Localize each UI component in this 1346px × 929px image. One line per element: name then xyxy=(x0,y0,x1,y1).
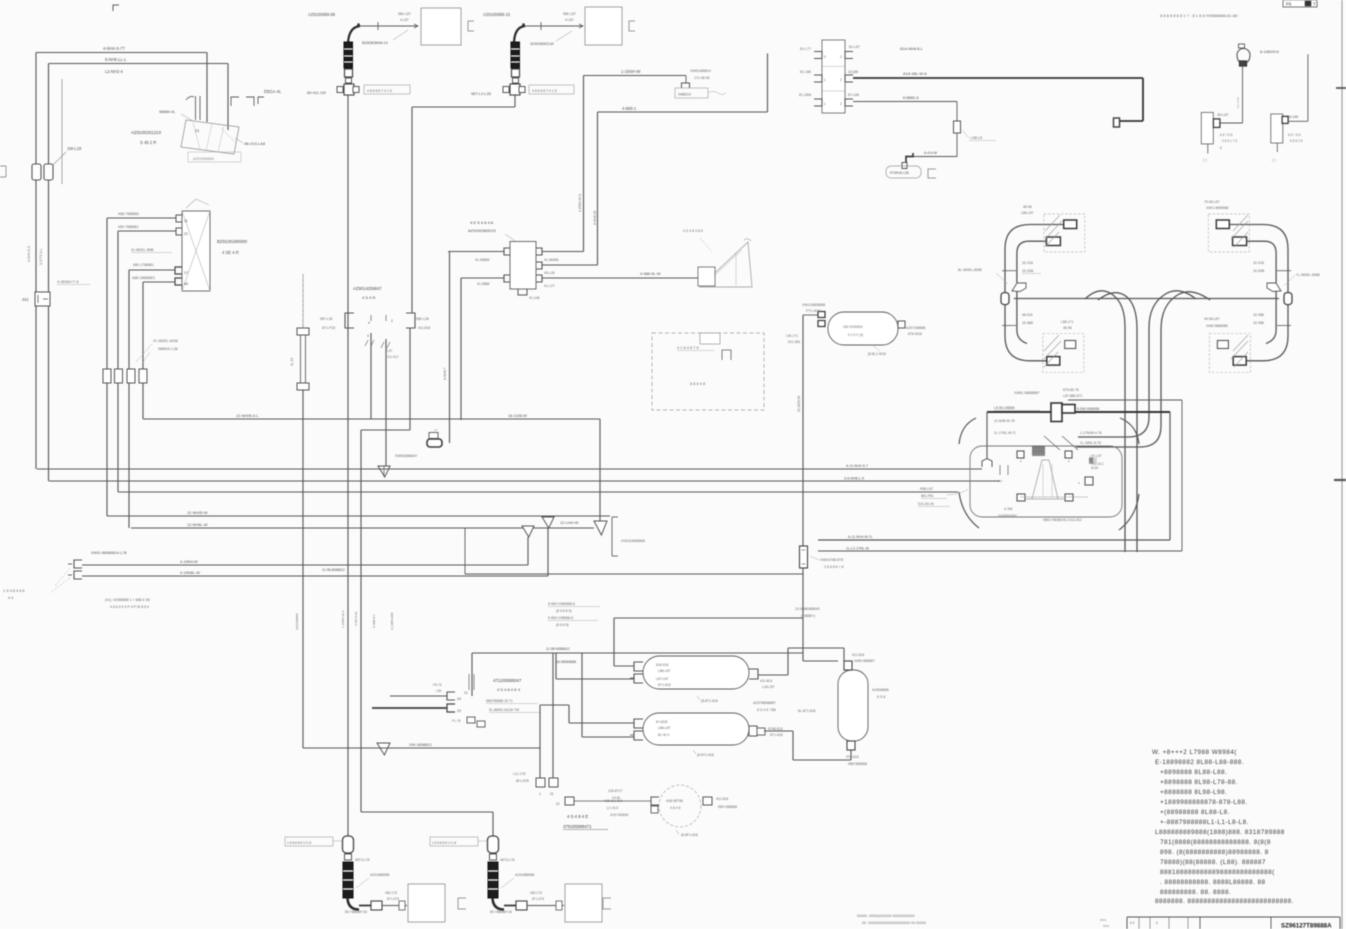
label 89-411-1W xyxy=(307,90,326,95)
svg-text:4 S 4 R: 4 S 4 R xyxy=(362,295,375,300)
tee fork on line y469 xyxy=(378,466,390,477)
svg-text:8881: 8881 xyxy=(1103,924,1110,928)
pressure regulator 1 body xyxy=(1201,112,1213,143)
svg-text:AZ97889888T: AZ97889888T xyxy=(753,701,777,705)
svg-text:8F1-8T8: 8F1-8T8 xyxy=(532,897,544,901)
pump dashed base bracket xyxy=(188,152,241,162)
svg-text:XW3188881: XW3188881 xyxy=(295,613,299,630)
svg-text:41-L2T: 41-L2T xyxy=(544,284,555,288)
svg-text:98E-L8T: 98E-L8T xyxy=(563,12,576,16)
svg-text:8S1-888: 8S1-888 xyxy=(788,340,800,344)
svg-text:441: 441 xyxy=(22,297,30,302)
svg-text:818-918: 818-918 xyxy=(656,663,669,667)
wire y666 tank1 xyxy=(614,665,634,667)
svg-text:4 8 A 9 9 9 P 4 P W 8 8 4: 4 8 A 9 9 9 P 4 P W 8 8 4 xyxy=(110,605,149,609)
svg-text:4-L8T: 4-L8T xyxy=(400,18,409,22)
svg-text:41-481EL-8M8: 41-481EL-8M8 xyxy=(131,248,154,252)
label 3-A-NH8-L-S xyxy=(844,477,865,481)
funnel box xyxy=(698,267,715,286)
chamber R top connector xyxy=(1216,220,1229,229)
wire vertical x583 to manifold xyxy=(583,76,585,252)
svg-text:4 S 4 8 4 8 E: 4 S 4 8 4 8 E xyxy=(683,229,704,233)
check valve clamp xyxy=(682,83,690,88)
svg-text:1E-918: 1E-918 xyxy=(1253,261,1264,265)
chamber L bottom dashed box xyxy=(1043,334,1084,373)
C bracket box2 xyxy=(629,21,635,31)
svg-text:18-1158-W: 18-1158-W xyxy=(508,413,527,418)
valve block labels right xyxy=(848,45,860,97)
svg-text:8+1818: 8+1818 xyxy=(656,720,668,724)
balance square 2 xyxy=(549,778,558,796)
pressure regulator 2 body xyxy=(1271,114,1283,143)
svg-text:S-1HH-S-S: S-1HH-S-S xyxy=(27,246,31,262)
svg-text:8T1-P18: 8T1-P18 xyxy=(322,326,335,330)
label 11-98+8988812 xyxy=(546,647,570,651)
label 4-19N4-W xyxy=(180,559,198,564)
svg-text:2 8 8 8 8 + 8: 2 8 8 8 8 + 8 xyxy=(824,565,844,569)
svg-text:BC+88888+18: BC+88888+18 xyxy=(490,910,512,914)
bottom hose 2 elbow arc xyxy=(493,898,505,910)
svg-text:EBGA-4L: EBGA-4L xyxy=(264,89,282,94)
valve block left port 2 xyxy=(814,75,822,82)
wire y737 tank2 xyxy=(582,736,634,738)
bottom hose 1 wire to box xyxy=(382,901,407,910)
svg-text:4 8 4 8: 4 8 4 8 xyxy=(670,806,680,810)
label below lube xyxy=(676,830,698,837)
svg-text:1L-L2-17NL-W: 1L-L2-17NL-W xyxy=(846,547,870,551)
svg-text:A-NH8-18: A-NH8-18 xyxy=(593,211,597,225)
svg-text:XWG-98989814-L78: XWG-98989814-L78 xyxy=(91,550,127,555)
wire vertical x540 xyxy=(539,748,541,778)
svg-text:48-918: 48-918 xyxy=(1022,313,1033,317)
svg-text:11: 11 xyxy=(184,219,188,223)
label 128-8T17 xyxy=(608,789,623,800)
fork fitting 3 xyxy=(594,521,607,535)
svg-text:41-98888: 41-98888 xyxy=(475,258,489,262)
vertical bundle label 3 xyxy=(354,612,358,626)
wire vertical x449 xyxy=(449,252,451,444)
wire 12-NH05-4-L y420 xyxy=(143,418,600,420)
svg-text:4 S 4 8 4 E 4: 4 S 4 8 4 E 4 xyxy=(497,687,521,692)
bottom hose 2 equipment box xyxy=(565,884,602,922)
wire thick drop x1143 xyxy=(1142,78,1144,121)
valve bottom marks xyxy=(365,334,390,348)
svg-text:198-1TC: 198-1TC xyxy=(786,334,799,338)
cluster label mid right xyxy=(1090,454,1104,466)
vertical bundle label 5 xyxy=(390,612,394,630)
small filter x957 xyxy=(954,121,961,133)
label hose assy rows xyxy=(690,69,711,80)
svg-text:881-P81: 881-P81 xyxy=(921,494,934,498)
wire 8-NH5-LL-L horizontal xyxy=(49,63,229,65)
svg-text:8-983+1988888-8: 8-983+1988888-8 xyxy=(548,602,575,606)
funnel label xyxy=(683,229,712,252)
wire y574 xyxy=(465,573,803,575)
label 1W-L18 with leader xyxy=(53,146,82,165)
svg-text:9L-88481-811W 7W: 9L-88481-811W 7W xyxy=(489,708,520,712)
svg-text:A-1988-W88: A-1988-W88 xyxy=(390,612,394,630)
svg-text:(8 8 8 8): (8 8 8 8) xyxy=(556,623,569,627)
wire left vertical 1 xyxy=(35,53,37,470)
vtank bottom fitting xyxy=(847,741,855,750)
svg-text:3488114: 3488114 xyxy=(678,93,691,97)
manifold right port 2 xyxy=(536,262,542,269)
tank1 label right xyxy=(760,679,775,689)
svg-text:XW81-9888888T: XW81-9888888T xyxy=(1014,391,1040,395)
wire manifold L3 to funnel xyxy=(461,277,504,279)
wire jog y430 xyxy=(361,429,410,431)
svg-text:411-818: 411-818 xyxy=(716,797,728,801)
dryer right connector xyxy=(898,321,905,328)
svg-text:4-988-9L-W: 4-988-9L-W xyxy=(640,271,661,276)
regulator2 text right xyxy=(1288,133,1303,143)
svg-text:8-98881-8: 8-98881-8 xyxy=(903,96,919,100)
svg-text:L18-L8T: L18-L8T xyxy=(762,685,775,689)
wire below coil xyxy=(302,390,304,469)
wire vertical x553 xyxy=(552,653,554,778)
chamber L fork fitting xyxy=(1012,283,1026,292)
svg-text:9881+98388 8L2-811-812: 9881+98388 8L2-811-812 xyxy=(1043,518,1082,522)
equipment box 2 xyxy=(585,7,622,45)
page right border xyxy=(1341,0,1343,929)
cluster outer rect right xyxy=(1181,400,1183,551)
valve left port xyxy=(345,313,354,328)
svg-text:24: 24 xyxy=(457,697,461,701)
label thick feed xyxy=(903,71,927,76)
hose curve 4 xyxy=(1076,292,1210,447)
svg-text:8 8 8 4 8: 8 8 8 4 8 xyxy=(690,381,705,386)
svg-text:48T3-L78: 48T3-L78 xyxy=(500,858,515,862)
wire y492 xyxy=(118,491,958,493)
label XW-1898812 xyxy=(409,742,432,747)
wire vertical x528 xyxy=(527,537,529,565)
tank1 label below xyxy=(697,696,718,703)
bottom hose 1 equipment box xyxy=(408,884,445,922)
wire vertical port44 xyxy=(142,282,144,419)
svg-text:AZ91888988: AZ91888988 xyxy=(515,873,535,877)
horn drop tick chars xyxy=(1236,97,1240,108)
regulator1 text right xyxy=(1220,133,1237,150)
svg-text:8T1-818: 8T1-818 xyxy=(658,683,671,687)
gauge port 44 xyxy=(175,278,188,286)
svg-text:411-818: 411-818 xyxy=(418,326,430,330)
svg-text:8T8-85-78: 8T8-85-78 xyxy=(1063,388,1079,392)
bottom hose 1 label AZ xyxy=(356,873,390,888)
svg-text:81A-NH8-8-L: 81A-NH8-8-L xyxy=(900,46,924,51)
wire y731 tank2 right xyxy=(764,730,793,732)
svg-text:41-98488: 41-98488 xyxy=(544,258,558,262)
svg-text:88888. 8888(88(8888 8888888888: 88888. 8888(88(8888 88888888888. xyxy=(857,914,915,918)
bottom hose 2 wire to box xyxy=(527,901,564,910)
wire y723 tank2 xyxy=(569,722,634,724)
valve trapezoid xyxy=(1026,460,1064,499)
svg-text:471100588047: 471100588047 xyxy=(493,678,522,683)
bottom hose 2 oval connector xyxy=(488,836,499,860)
svg-text:8T8-W18: 8T8-W18 xyxy=(908,332,922,336)
svg-text:411-812: 411-812 xyxy=(387,355,399,359)
sensor label rows xyxy=(136,339,178,364)
bottom hose 2 boxed label xyxy=(430,837,487,846)
filter label xyxy=(810,556,844,569)
label EBGA-4L xyxy=(264,89,282,94)
wire horn drop xyxy=(1242,66,1244,123)
svg-text:AZ91888988: AZ91888988 xyxy=(370,873,390,877)
label 1-15NH-W xyxy=(621,69,640,74)
tank2 left fitting B xyxy=(630,731,643,740)
svg-text:A-11-NH4-S-7: A-11-NH4-S-7 xyxy=(846,464,868,468)
fork fitting 1 xyxy=(522,526,534,537)
wire y156 left xyxy=(913,156,958,158)
wire 4-19N4-W xyxy=(82,564,528,566)
svg-text:. 88888888888. 8888L88888. 88: . 88888888888. 8888L88888. 88 xyxy=(1160,879,1265,886)
label tee left underlined xyxy=(994,406,1040,411)
svg-text:8-988-9888888: 8-988-9888888 xyxy=(1077,407,1100,411)
svg-text:(41): 92988888 1 + 888 E 98: (41): 92988888 1 + 888 E 98 xyxy=(105,598,150,602)
chamber R label hose xyxy=(1284,273,1320,286)
wire to port 11 xyxy=(107,217,176,219)
label tee part rows xyxy=(1014,388,1083,398)
svg-text:BZ8383848-14: BZ8383848-14 xyxy=(362,40,389,45)
svg-text:15-1158-98: 15-1158-98 xyxy=(797,396,801,412)
dryer label below xyxy=(868,345,886,356)
C bracket regulator xyxy=(928,169,936,178)
intake funnel xyxy=(700,239,752,287)
label 441 xyxy=(22,297,30,302)
svg-text:2: 2 xyxy=(840,55,842,59)
wire vertical x556 xyxy=(555,653,557,679)
svg-text:128-8T17: 128-8T17 xyxy=(608,789,623,793)
svg-text:48T3-L78: 48T3-L78 xyxy=(355,858,370,862)
chamber L top connector xyxy=(1064,220,1077,229)
regulator1 nub xyxy=(1213,119,1220,128)
gauge port 17 xyxy=(175,267,188,275)
svg-text:8L88: 8L88 xyxy=(1091,466,1098,470)
label 12-NH05-4-L xyxy=(236,413,259,418)
z elbow xyxy=(902,153,913,169)
gauge box BZ9100280000 xyxy=(182,211,210,291)
label A-414-W xyxy=(924,151,938,155)
chamber R tick 2 xyxy=(1277,325,1291,327)
svg-text:4-SE8A+T-S: 4-SE8A+T-S xyxy=(57,279,79,284)
label AZ910088-98 hose1 xyxy=(308,12,336,17)
valve block labels left xyxy=(799,47,812,97)
hose curve 3 xyxy=(1078,291,1196,437)
fork fitting 2 xyxy=(542,517,554,528)
svg-text:8F1-8T8: 8F1-8T8 xyxy=(387,897,399,901)
svg-text:4 4: 4 4 xyxy=(8,596,13,600)
check valve boxed label xyxy=(675,88,726,98)
svg-text:12-NH05-W: 12-NH05-W xyxy=(187,510,208,515)
wire vertical x793 xyxy=(792,731,794,760)
label compressor part xyxy=(91,550,127,555)
chamber R labels mid2 xyxy=(1253,313,1264,325)
wire vertical x461 xyxy=(460,278,462,420)
wire vertical x851 xyxy=(850,750,852,760)
svg-text:L81-L8T: L81-L8T xyxy=(1090,454,1102,458)
label compressor name xyxy=(3,589,25,600)
svg-text:L85: L85 xyxy=(436,689,442,693)
vertical label S-17T1-S-L xyxy=(39,248,43,265)
wire y679 tank1 xyxy=(556,678,634,680)
page corner box xyxy=(1283,0,1317,7)
tank2 label below xyxy=(693,750,714,757)
small filter xyxy=(429,428,438,439)
wire y661 to vtank xyxy=(803,660,838,662)
dryer inner text xyxy=(843,325,863,337)
hose2 line to box xyxy=(525,22,583,30)
equipment box 1 xyxy=(421,8,461,45)
svg-text:8888888. 888888888888888888888: 8888888. 88888888888888888888888888. xyxy=(1155,898,1294,905)
svg-text:A88-188888E1: A88-188888E1 xyxy=(132,276,155,280)
cab tilt pump AZ9100261210 body xyxy=(181,120,239,154)
label XW31888888 xyxy=(620,538,645,543)
compressor dashed leaders xyxy=(50,568,70,593)
svg-text:XW81888847: XW81888847 xyxy=(395,454,417,458)
vtank label right xyxy=(872,688,889,699)
svg-text:AZ9100888-15: AZ9100888-15 xyxy=(483,12,511,17)
svg-text:75-98-L8T: 75-98-L8T xyxy=(1204,200,1220,204)
wire drop x957 xyxy=(956,102,958,122)
svg-text:XW8-9888988: XW8-9888988 xyxy=(1206,324,1228,328)
vtank label above xyxy=(852,653,875,663)
air tank vertical xyxy=(838,670,868,741)
cluster right paren xyxy=(1119,418,1139,530)
lube dashed circle xyxy=(659,785,701,827)
svg-text:41-148: 41-148 xyxy=(529,296,540,300)
svg-text:1E-888: 1E-888 xyxy=(1022,321,1033,325)
label hose curve 3 xyxy=(1080,431,1102,435)
vertical label 15-1158-98 xyxy=(797,396,801,412)
bottom hose 1 C bracket xyxy=(458,898,466,909)
label 4-19N8L-W xyxy=(180,570,200,575)
tank1 left fitting A xyxy=(630,662,643,671)
regulator1 label xyxy=(1218,113,1230,117)
wire vertical port17 xyxy=(128,270,130,528)
svg-text:11-NH8-W-78: 11-NH8-W-78 xyxy=(994,419,1015,423)
bottom hose 2 end fitting xyxy=(504,901,527,910)
wire 4-NH-S-77 drop to pump port 21 xyxy=(206,53,208,123)
valve small label xyxy=(387,349,399,359)
wire thick y121 xyxy=(1120,120,1144,122)
svg-text:488-1T8: 488-1T8 xyxy=(530,891,542,895)
svg-text:1: 1 xyxy=(824,78,826,82)
svg-text:988+8988888: 988+8988888 xyxy=(843,325,863,329)
manifold right port 3 xyxy=(536,275,542,282)
svg-text:98T-L2-L28: 98T-L2-L28 xyxy=(471,91,491,96)
boxed label hose2 xyxy=(529,85,574,94)
wire vertical x569 xyxy=(568,705,570,723)
svg-text:41-383EL-8438: 41-383EL-8438 xyxy=(153,339,178,343)
wire vertical x361 xyxy=(360,430,362,812)
label production-date underlined xyxy=(57,279,90,285)
svg-text:48-98: 48-98 xyxy=(1063,326,1072,330)
label 98884-4L leader xyxy=(159,109,193,121)
svg-text:RT8R48-L58: RT8R48-L58 xyxy=(890,171,909,175)
svg-text:4 S 4 8 4 E: 4 S 4 8 4 E xyxy=(567,814,588,819)
chamber R outer loop xyxy=(1229,225,1288,361)
bottom hose 1 end fitting xyxy=(359,901,382,910)
svg-text:▓▓: ▓▓ xyxy=(1032,445,1046,456)
svg-text:98T-L28: 98T-L28 xyxy=(320,317,333,321)
svg-text:1-15NH-W-S: 1-15NH-W-S xyxy=(341,610,345,628)
svg-text:1E-E88: 1E-E88 xyxy=(1253,269,1264,273)
svg-text:AZ9100889-98: AZ9100889-98 xyxy=(308,12,336,17)
lube labels right xyxy=(716,797,737,809)
svg-text:9 8 8 1 7 8: 9 8 8 1 7 8 xyxy=(1222,139,1237,143)
wire y648 xyxy=(788,647,844,649)
wire y705 xyxy=(540,704,569,706)
svg-text:1E-E88: 1E-E88 xyxy=(1022,269,1033,273)
svg-text:88. 888888888888888888888 88 8: 88. 888888888888888888888 88 88888 xyxy=(862,921,926,925)
svg-text:L88-L8T: L88-L8T xyxy=(658,669,671,673)
wire y760 xyxy=(793,759,851,761)
wire inner y497 xyxy=(1020,496,1088,498)
suspension valve label xyxy=(493,678,522,692)
susp port 24 xyxy=(447,692,461,701)
svg-text:81-L77: 81-L77 xyxy=(800,47,811,51)
pressure sensor 1 xyxy=(103,369,111,383)
wire short vertical L2-NH2-4 xyxy=(61,79,63,184)
svg-text:1L-17NL-W-7L: 1L-17NL-W-7L xyxy=(994,431,1016,435)
chamber R tick 1 xyxy=(1277,270,1291,272)
svg-text:4 SE 4 R: 4 SE 4 R xyxy=(222,250,239,255)
regulator1 drain xyxy=(1203,144,1208,162)
balance square 3 xyxy=(556,797,574,806)
svg-text:XW8+88888T: XW8+88888T xyxy=(854,659,875,663)
chamber L inner top connector xyxy=(1046,237,1060,246)
svg-text:1: 1 xyxy=(539,792,541,796)
svg-text:11-98-8988812: 11-98-8988812 xyxy=(322,568,345,572)
svg-text:8 8: 8 8 xyxy=(1130,921,1135,925)
bottom hose 1 port labels xyxy=(385,891,399,901)
svg-text:W. +8+++2 L7988 W8984(: W. +8+++2 L7988 W8984( xyxy=(1152,749,1237,756)
bottom hose 2 port labels xyxy=(530,891,544,901)
chamber L tick 1 xyxy=(1002,270,1016,272)
svg-text:21: 21 xyxy=(195,128,200,133)
bottom hose 1 elbow arc xyxy=(348,898,360,910)
svg-text:1W-L18: 1W-L18 xyxy=(67,146,82,151)
svg-text:1-17NH8-4-78: 1-17NH8-4-78 xyxy=(1080,431,1102,435)
bottom hose 2 label below xyxy=(490,910,512,914)
wire valve right vertical down xyxy=(409,328,411,430)
lube left port xyxy=(651,797,659,813)
title block frame xyxy=(1127,917,1340,929)
label box1 rows xyxy=(398,12,411,22)
svg-text:AZ910036001S: AZ910036001S xyxy=(468,228,496,233)
bracket x612 xyxy=(612,517,618,556)
wire horn to regulator xyxy=(1220,122,1243,124)
wire thick feed y78 xyxy=(853,77,1143,79)
svg-text:E31-83-26: E31-83-26 xyxy=(918,502,934,506)
chamber L outer loop xyxy=(1005,225,1064,361)
svg-text:XW88889881: XW88889881 xyxy=(998,514,1018,518)
wire manifold R2 xyxy=(542,264,598,266)
label 88878888-18 xyxy=(486,699,538,704)
svg-text:(8-8T1-818: (8-8T1-818 xyxy=(697,753,714,757)
label 41-481L-8M8 underlined xyxy=(131,248,172,253)
compressor note rows xyxy=(105,598,150,609)
chamber R labels low xyxy=(1204,317,1228,328)
svg-text:1L-18NL-8-78: 1L-18NL-8-78 xyxy=(1080,441,1101,445)
valve block right port 3 xyxy=(845,99,853,106)
svg-text:S 45 2 R: S 45 2 R xyxy=(140,140,156,145)
dryer label above xyxy=(802,303,825,313)
svg-text:4L-14: 4L-14 xyxy=(290,358,294,366)
pump port 21 label xyxy=(195,128,200,133)
svg-text:L8-98-L88888: L8-98-L88888 xyxy=(994,406,1015,410)
svg-text:L88-1T1: L88-1T1 xyxy=(1061,320,1074,324)
svg-text:8-NH5-LL-L: 8-NH5-LL-L xyxy=(105,57,127,62)
